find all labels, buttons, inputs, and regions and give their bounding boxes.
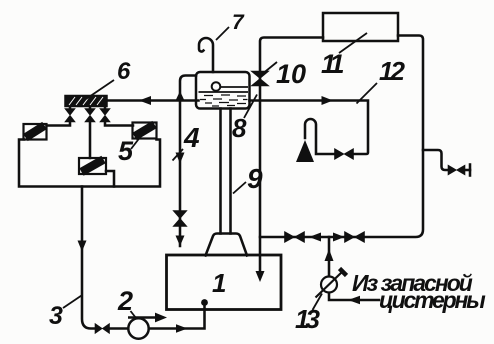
svg-text:2: 2 [117, 286, 133, 316]
svg-text:цистерны: цистерны [379, 287, 486, 313]
svg-text:1: 1 [212, 268, 226, 298]
svg-text:8: 8 [232, 113, 247, 143]
svg-text:12: 12 [379, 56, 405, 86]
svg-text:13: 13 [295, 304, 320, 334]
svg-text:9: 9 [247, 163, 263, 194]
svg-text:4: 4 [183, 122, 200, 153]
svg-text:7: 7 [232, 11, 245, 34]
svg-text:6: 6 [117, 58, 131, 85]
svg-text:10: 10 [276, 59, 306, 89]
svg-text:5: 5 [118, 136, 134, 166]
svg-text:11: 11 [321, 49, 344, 79]
svg-text:3: 3 [49, 302, 63, 330]
